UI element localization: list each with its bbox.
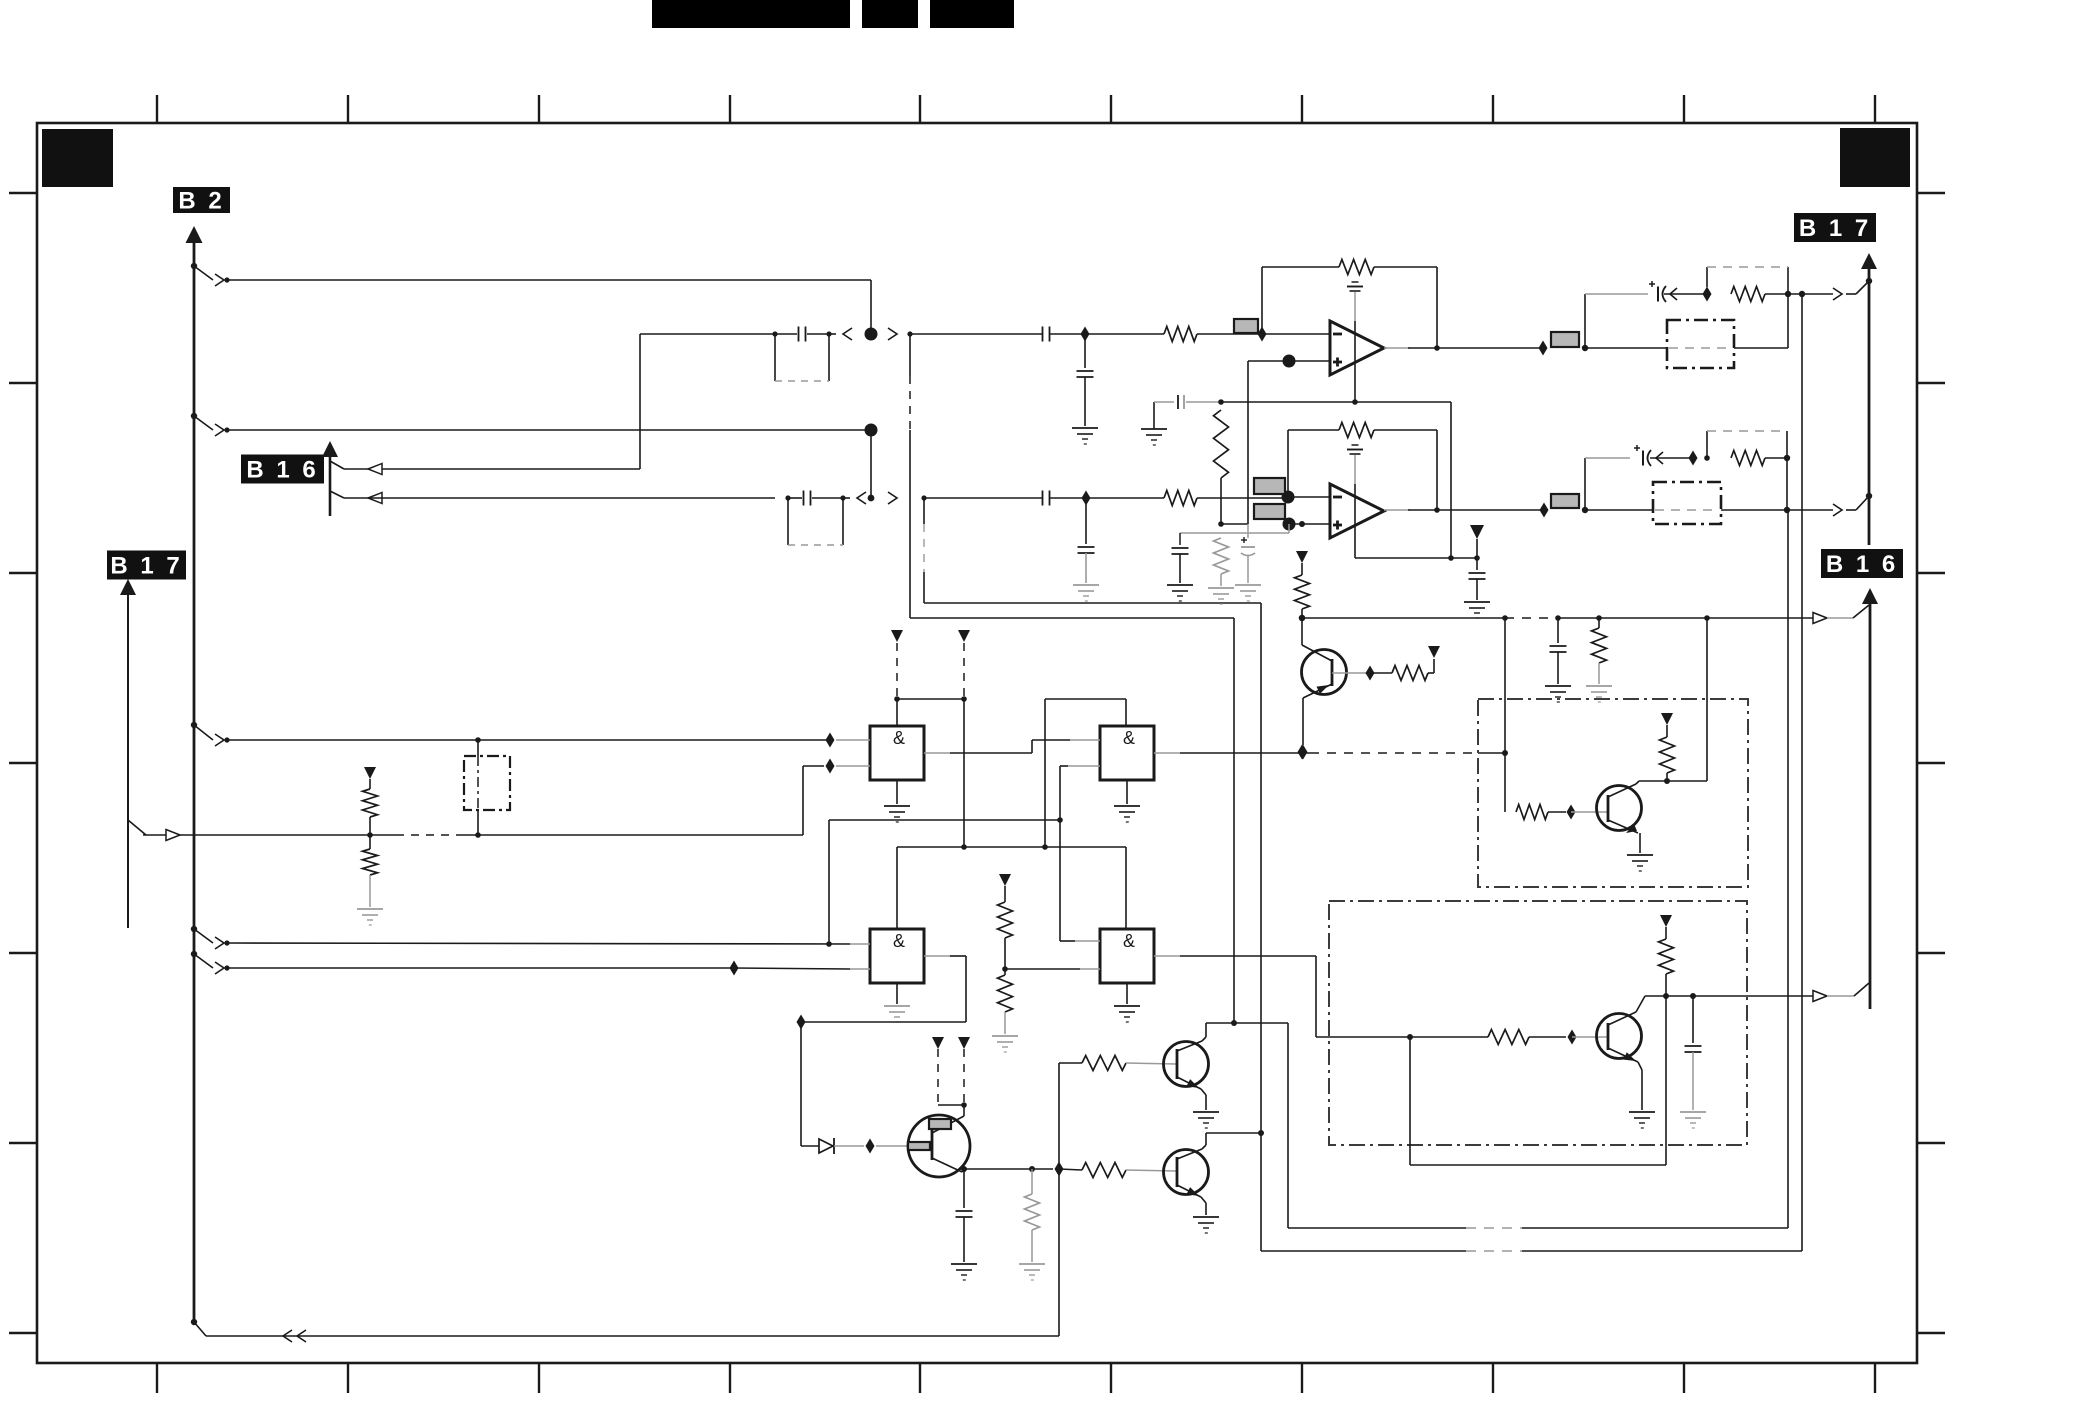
svg-text:&: & [893, 931, 905, 951]
svg-text:&: & [893, 728, 905, 748]
svg-text:&: & [1123, 728, 1135, 748]
svg-text:B 1 7: B 1 7 [1799, 215, 1871, 242]
svg-text:B 1 7: B 1 7 [110, 553, 182, 580]
svg-text:B 1 6: B 1 6 [246, 457, 318, 484]
svg-text:&: & [1123, 931, 1135, 951]
svg-text:B 2: B 2 [178, 188, 224, 215]
svg-text:B 1 6: B 1 6 [1826, 551, 1898, 578]
